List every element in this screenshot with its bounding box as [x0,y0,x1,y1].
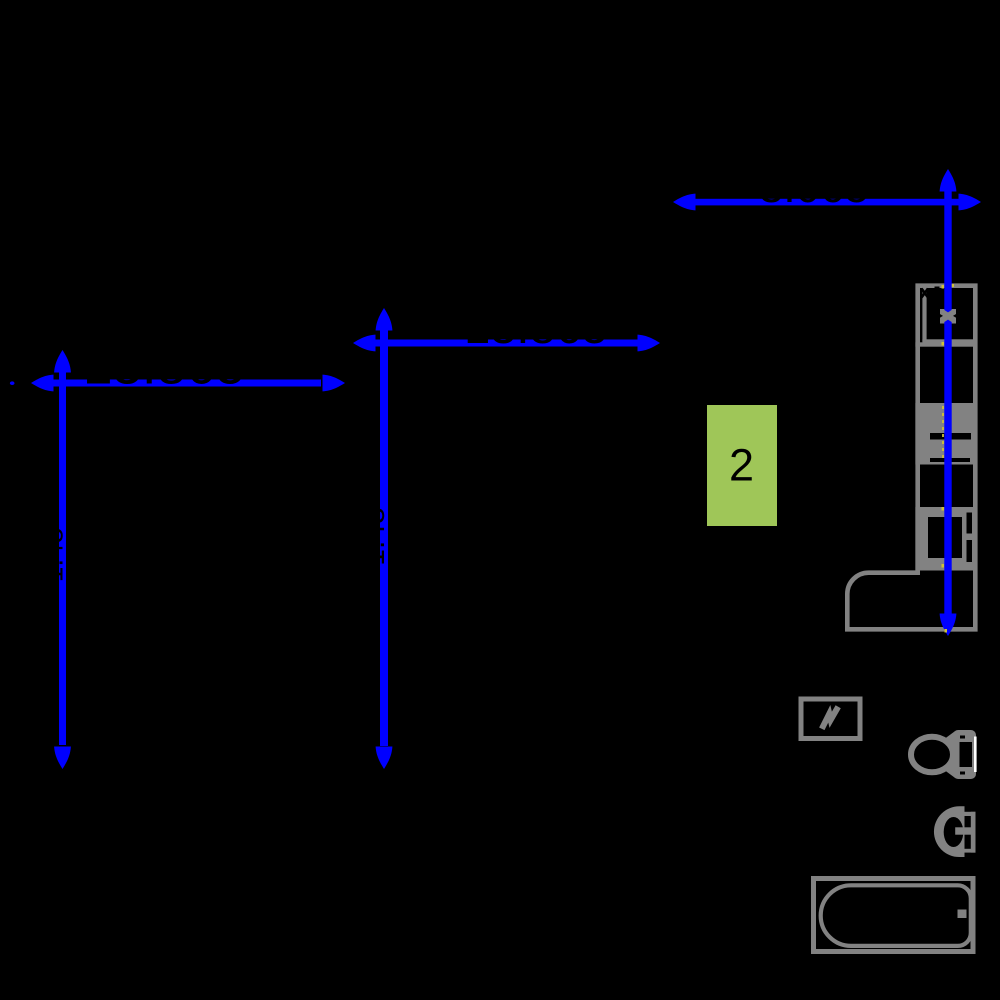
yellow jpeg artifacts along vertical arrow A [942,406,944,462]
arrowhead B right [638,335,661,352]
arrowhead A up [940,169,957,192]
appliance block (filled gray) [915,403,975,465]
arrowhead B left [353,335,376,352]
dimension arrow A vertical line [944,190,951,614]
svg-text:1.48: 1.48 [37,528,68,583]
lower unit right slot 1 [967,513,973,534]
dimension arrow A horizontal line [692,199,959,206]
lower unit right slot 2 [967,540,973,562]
wash basin tab [955,827,971,834]
appliance black slot 2 [930,458,970,462]
bathtub inner tub [821,885,971,946]
svg-text:13.865: 13.865 [464,300,608,353]
wash basin body [934,806,965,857]
arrowhead A down [940,614,957,637]
toilet tank inner [960,742,973,767]
svg-text:3.065: 3.065 [759,163,869,212]
toilet bowl-tank neck bottom [945,763,955,778]
sink cross symbol base square [940,309,956,324]
arrowhead C up [54,350,71,373]
kitchen sink unit inner bottom line [922,339,974,342]
arrowhead C right [323,375,346,392]
panel lightning icon [822,707,838,729]
toilet tank dashes [960,736,965,739]
dimension arrow B horizontal line [374,340,638,347]
white wall line at toilet [974,737,977,773]
bathtub drain tab [958,910,967,919]
arrowhead B down [376,747,393,770]
toilet tank [953,730,976,779]
sink cross overlay X (over blue line) [942,312,954,320]
sink cross black notches [940,314,956,318]
small blue dot at left edge [10,381,15,385]
green room 2 rect [707,405,777,526]
appliance black slot 1 [930,433,971,440]
divider under sink unit [915,342,975,346]
wash basin bracket bottom arm [964,849,976,853]
bathtub outer rect [814,879,974,952]
arrowhead C left [31,375,54,392]
dimension arrow C vertical line [59,372,66,745]
lower unit block (filled gray) [915,507,975,571]
kitchen sink unit inner vertical line [922,287,926,342]
arrowhead A right [959,194,982,211]
black faucet mark on sink corner [922,289,929,298]
toilet bowl [911,737,953,773]
lower unit inner black square [928,517,962,558]
kitchen counter outline (L-shaped) [847,286,975,630]
svg-text:2: 2 [729,440,754,491]
arrowhead A left [673,194,696,211]
arrowhead C down [54,747,71,770]
electrical panel box [801,699,860,739]
svg-text:1.48: 1.48 [358,507,391,565]
wash basin inner bowl [944,817,964,847]
svg-text:13.865: 13.865 [83,336,245,395]
dimension arrow B vertical line [380,330,388,746]
dimension arrow C horizontal line [52,380,321,387]
wash basin bracket top arm [964,812,976,816]
arrowhead B up [376,308,393,331]
toilet bowl-tank neck top [945,732,955,747]
wash basin bracket bar [971,812,976,853]
